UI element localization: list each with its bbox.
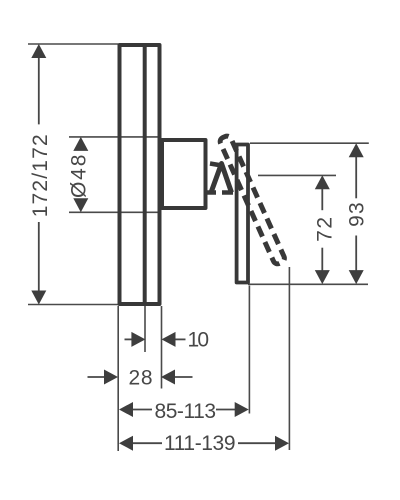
svg-text:85-113: 85-113 <box>155 400 217 423</box>
svg-text:111-139: 111-139 <box>164 432 236 455</box>
svg-text:72: 72 <box>313 217 336 242</box>
svg-text:10: 10 <box>188 329 210 352</box>
svg-text:Ø48: Ø48 <box>68 155 91 199</box>
svg-text:28: 28 <box>129 367 153 390</box>
svg-text:93: 93 <box>346 202 369 227</box>
svg-text:172/172: 172/172 <box>29 134 52 217</box>
